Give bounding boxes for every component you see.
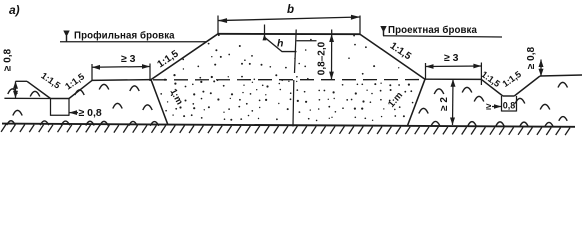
left peat bottom line [4,97,50,99]
dimension b: extension lines [217,16,219,34]
centre axis line [295,30,297,74]
right ditch bottom [503,95,515,97]
left ditch bottom width dimension: extensions down [50,99,52,116]
svg-text:0,8: 0,8 [503,101,516,111]
right depth dimension >=2 [452,79,455,125]
profile edge marker flag (left) [66,36,68,42]
svg-text:≥: ≥ [486,102,491,113]
svg-text:а): а) [9,3,20,17]
prism slope line [265,38,297,52]
left berm dimension >=3: extension ticks [91,64,93,81]
leader line for Профильная бровка [60,41,207,43]
prism axis level dash [297,40,317,42]
left ditch right slope [69,80,92,98]
height dimension 0,8-2,0: line with arrows [331,30,333,80]
right berm dimension >=3: extension ticks [425,63,427,80]
right outer depth dimension >=0,8 [540,60,542,77]
left ditch bottom [51,98,70,100]
sand fill dots [160,34,413,121]
ground line (mineral bottom, hatched) [2,124,575,127]
dimension b: line with arrows [218,17,360,21]
svg-text:Профильная бровка: Профильная бровка [74,31,175,42]
right berm surface [425,78,481,80]
arrow pointing left at ditch bottom width [69,112,78,114]
svg-text:≥ 0,8: ≥ 0,8 [3,48,14,71]
right ditch left slope [481,79,502,96]
right berm dimension line [426,65,482,68]
left berm dimension line [92,66,150,69]
embankment left slope 1:1.5 [151,34,218,80]
right ditch bottom width dimension [501,96,503,112]
right outer ground line [540,75,582,76]
right excavation slope 1:m [408,79,426,125]
left depth dimension >=0,8 [15,81,17,98]
svg-text:Проектная бровка: Проектная бровка [388,25,477,36]
left ditch left slope [27,81,51,98]
buried ground line (dashed) under embankment [153,79,424,81]
ground hatching [1,124,570,135]
svg-text:b: b [287,4,294,16]
svg-text:≥ 0,8: ≥ 0,8 [79,107,102,119]
left outer ground ledge [16,80,28,82]
svg-text:≥ 2: ≥ 2 [439,97,450,111]
svg-text:≥ 0,8: ≥ 0,8 [526,46,537,69]
svg-text:≥ 3: ≥ 3 [444,52,459,64]
svg-text:0,8–2,0: 0,8–2,0 [317,41,328,75]
arrow pointing right at right ditch bottom [492,106,502,108]
peat symbols (arcs) [7,82,568,126]
embankment right slope 1:1.5 [360,34,425,79]
right ditch right slope [514,76,540,96]
svg-text:≥ 3: ≥ 3 [121,53,136,65]
svg-text:h: h [277,38,283,50]
design edge marker flag (right) [383,31,385,36]
left berm surface [92,79,151,82]
leader line for Проектная бровка [383,36,502,37]
drainage prism notch: tick with up arrow [264,25,266,38]
left excavation slope 1:m [151,80,168,125]
embankment outline: top surface [218,33,360,35]
